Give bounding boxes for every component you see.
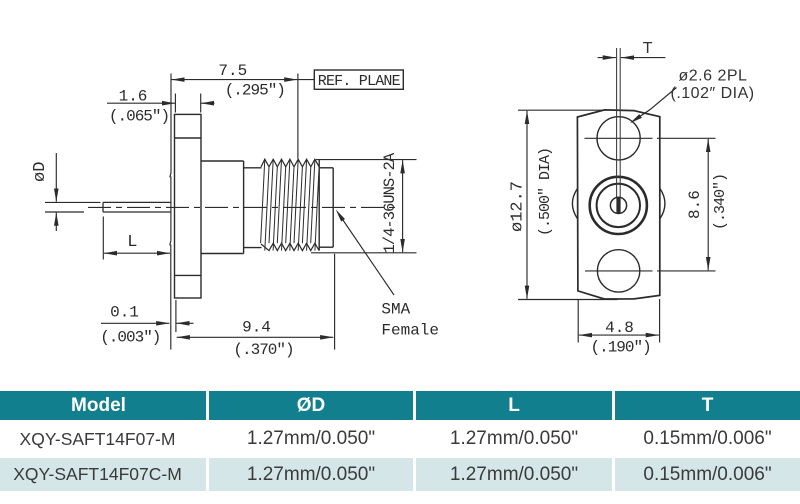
row 1 bbox=[0, 420, 206, 458]
right bulge bbox=[660, 189, 665, 219]
center contact circle bbox=[610, 197, 626, 213]
svg-text:8.6: 8.6 bbox=[686, 190, 704, 219]
svg-text:9.4: 9.4 bbox=[242, 318, 271, 336]
interface outer circle bbox=[590, 177, 647, 234]
svg-text:1.6: 1.6 bbox=[119, 88, 148, 106]
svg-text:L: L bbox=[127, 233, 137, 252]
dimension øD extension lines bbox=[45, 201, 101, 203]
svg-text:(.500″ DIA): (.500″ DIA) bbox=[537, 148, 554, 236]
dimension 7.5 bbox=[170, 74, 171, 350]
header row bbox=[0, 391, 206, 420]
svg-text:T: T bbox=[643, 40, 653, 57]
hole center lines bbox=[585, 137, 653, 139]
connector front ring bbox=[319, 168, 333, 247]
svg-text:7.5: 7.5 bbox=[218, 62, 247, 80]
svg-text:(.340″): (.340″) bbox=[712, 174, 729, 230]
interface inner circle bbox=[597, 184, 640, 227]
slot projection lines (T) bbox=[616, 48, 618, 197]
center line (side view axis) bbox=[88, 206, 397, 208]
left bulge bbox=[572, 189, 577, 219]
svg-text:ø12.7: ø12.7 bbox=[509, 181, 528, 232]
svg-text:(.370″): (.370″) bbox=[233, 341, 293, 359]
thread flank lines bbox=[261, 159, 320, 250]
top mounting hole bbox=[597, 117, 640, 160]
row 2 bbox=[0, 458, 206, 491]
svg-text:(.102″ DIA): (.102″ DIA) bbox=[671, 85, 755, 102]
dimension 9.4 bbox=[334, 254, 336, 350]
dimension 4.8 bbox=[577, 300, 579, 343]
dimension 0.1 bbox=[175, 300, 177, 332]
dimension T bbox=[598, 57, 616, 59]
svg-text:REF. PLANE: REF. PLANE bbox=[318, 73, 401, 90]
thread spec dimension 1/4-36UNS-2A bbox=[316, 159, 417, 161]
svg-text:1/4-36UNS-2A: 1/4-36UNS-2A bbox=[381, 152, 399, 253]
thread crest zigzag top bbox=[261, 159, 319, 167]
dimension øD arrows bbox=[55, 153, 57, 202]
dimension L bbox=[102, 217, 104, 260]
dimension 8.6 bbox=[707, 139, 709, 270]
dimension 1.6 bbox=[174, 94, 176, 113]
svg-text:ø2.6 2PL: ø2.6 2PL bbox=[679, 68, 748, 85]
pin (center contact) bbox=[103, 202, 171, 212]
svg-text:Female: Female bbox=[381, 321, 439, 339]
REF. PLANE box bbox=[298, 79, 314, 81]
dimension ø12.7 bbox=[518, 109, 604, 111]
thread end face bbox=[318, 159, 320, 250]
svg-text:øD: øD bbox=[31, 162, 50, 182]
svg-text:(.295″): (.295″) bbox=[225, 82, 285, 100]
thread relief neck bbox=[244, 168, 262, 248]
svg-text:4.8: 4.8 bbox=[605, 319, 634, 337]
body behind flange bbox=[201, 161, 244, 254]
SMA Female leader bbox=[339, 214, 395, 296]
thread crest zigzag bottom bbox=[261, 243, 319, 250]
svg-text:(.065″): (.065″) bbox=[109, 107, 169, 125]
data table bbox=[0, 390, 800, 392]
svg-text:(.190″): (.190″) bbox=[590, 338, 650, 356]
bottom mounting hole bbox=[597, 250, 639, 292]
leader to hole bbox=[634, 88, 677, 121]
svg-text:(.003″): (.003″) bbox=[100, 329, 160, 347]
contact slot bbox=[616, 198, 620, 214]
flange outline bbox=[577, 110, 659, 299]
svg-text:SMA: SMA bbox=[381, 301, 410, 319]
flange plate bbox=[175, 114, 202, 298]
svg-text:0.1: 0.1 bbox=[110, 303, 139, 321]
